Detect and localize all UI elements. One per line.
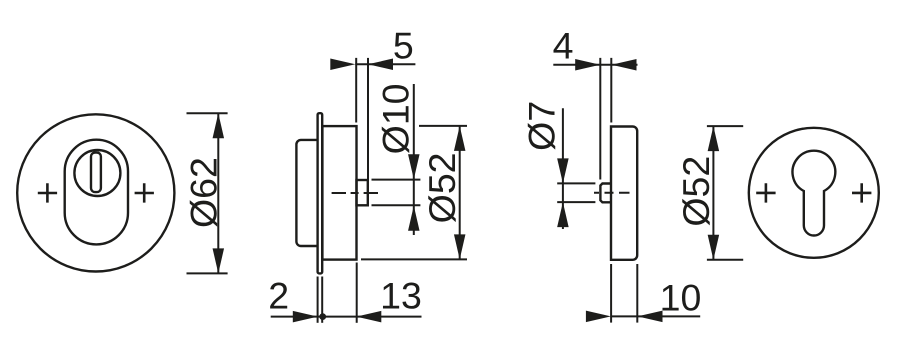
dim Ø10 extension line bottom <box>372 204 421 206</box>
dim Ø7 extension line bottom <box>557 201 595 203</box>
svg-text:5: 5 <box>393 24 414 66</box>
svg-text:13: 13 <box>380 275 422 317</box>
Ø62 extension tick top <box>187 112 228 114</box>
dim 10 arrow right (points left) <box>638 311 663 323</box>
dim 4 extension line right <box>610 58 612 123</box>
right plate (side view, 10mm) <box>611 127 637 260</box>
cylinder plug circle <box>74 150 120 196</box>
Ø62 dimension line <box>217 113 219 273</box>
dim 2 arrow (points right) <box>293 311 318 323</box>
dim 10 extension line left <box>610 264 612 323</box>
dim Ø52 mid dimension line <box>459 126 461 260</box>
dim 4 arrow right (points left) <box>612 59 637 71</box>
dim 5 arrow left (points right) <box>330 59 355 71</box>
svg-text:Ø52: Ø52 <box>675 156 717 227</box>
dim 10 extension line right <box>636 264 638 323</box>
Ø52 mid arrow down <box>454 234 466 259</box>
dim 4 extension line left <box>599 58 601 180</box>
centerline middle view <box>332 192 378 194</box>
Ø10 arrow bottom (points up) <box>408 206 420 231</box>
Ø62 arrow up <box>213 113 225 138</box>
dim Ø52 mid extension tick bottom <box>361 258 467 260</box>
Ø52 right arrow down <box>708 235 720 260</box>
cover cap (middle side view, oval cover in section) <box>296 140 318 246</box>
Ø62 extension tick bottom <box>187 272 228 274</box>
flange ext line right (for dim 2) <box>321 277 323 323</box>
dim Ø10 dimension line <box>413 84 415 235</box>
dim 4 dimension line <box>553 64 637 66</box>
cylinder boss Ø7 (protrudes 4mm) <box>600 184 611 203</box>
dim 2 and 13 dimension line <box>271 316 422 318</box>
rose flange plate (2mm) <box>318 113 323 273</box>
Ø52 mid arrow up <box>454 126 466 151</box>
Ø7 arrow top (points down) <box>557 158 569 183</box>
svg-text:Ø10: Ø10 <box>375 83 417 154</box>
right rose outer circle (front view, Ø52) <box>749 128 879 258</box>
flange ext line left (for dim 2) <box>317 277 319 323</box>
dim 5 dimension line <box>355 63 415 65</box>
centerline right view <box>594 192 630 194</box>
svg-text:Ø52: Ø52 <box>421 152 463 223</box>
dim 4 arrow left (points right) <box>575 59 600 71</box>
dim Ø52 right extension tick bottom <box>707 259 743 261</box>
screw mark right (+) right rose <box>852 183 871 202</box>
dim 5 arrow right (points left) <box>368 59 393 71</box>
europrofile cylinder hole <box>792 151 835 236</box>
keyway slot <box>91 153 101 193</box>
dim Ø10 extension line top <box>372 179 421 181</box>
left rose outer circle (front view, security escutcheon) <box>17 114 174 271</box>
svg-text:4: 4 <box>553 24 574 66</box>
body face ext line (for dim 13) <box>356 263 358 323</box>
screw mark left (+) <box>38 183 57 202</box>
dim Ø52 right extension tick top <box>707 125 743 127</box>
screw mark right (+) <box>135 183 154 202</box>
Ø7 arrow bottom (points up) <box>557 202 569 227</box>
oval cylinder cover outline <box>65 140 128 245</box>
dim Ø7 extension line top <box>557 182 595 184</box>
dim Ø52 mid extension tick top <box>419 125 467 127</box>
cylinder boss Ø10 (protrudes 5mm) <box>357 180 368 205</box>
dim 10 arrow left (points right) <box>586 311 611 323</box>
dim Ø7 dimension line <box>562 108 564 229</box>
dim Ø52 right dimension line <box>712 126 714 260</box>
svg-text:Ø62: Ø62 <box>183 157 225 228</box>
svg-text:2: 2 <box>268 275 289 317</box>
dim 10 dimension line <box>611 315 700 317</box>
rose body (13mm) <box>322 126 356 260</box>
Ø10 arrow top (points down) <box>408 154 420 179</box>
svg-text:10: 10 <box>660 277 702 319</box>
dim 2 end dot <box>319 313 326 320</box>
dim 13 arrow (points left) <box>356 311 381 323</box>
screw mark left (+) right rose <box>756 183 775 202</box>
svg-text:Ø7: Ø7 <box>521 101 563 151</box>
dim 5 extension line left <box>355 58 357 123</box>
Ø62 arrow down <box>213 248 225 273</box>
Ø52 right arrow up <box>708 126 720 151</box>
dim 5 extension line right <box>367 58 369 180</box>
